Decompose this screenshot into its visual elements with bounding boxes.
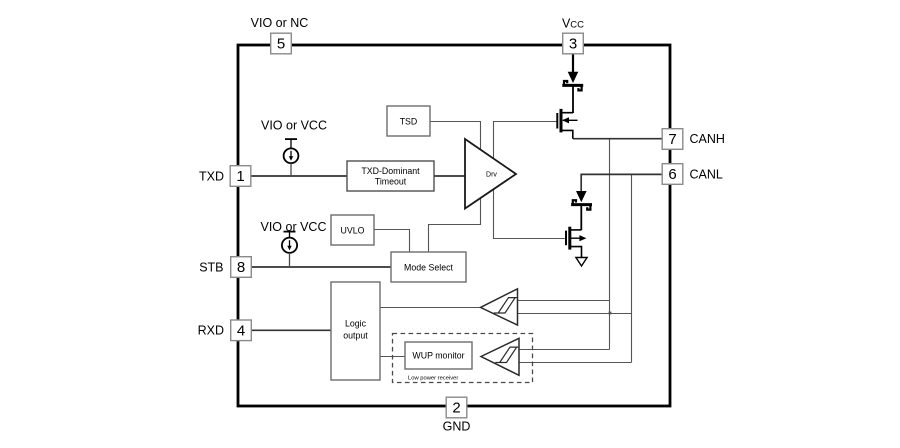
svg-text:VIO or VCC: VIO or VCC — [261, 220, 327, 234]
svg-text:VCC: VCC — [562, 17, 584, 31]
svg-text:Mode Select: Mode Select — [404, 262, 453, 272]
svg-text:Low power receiver: Low power receiver — [408, 375, 458, 381]
svg-text:1: 1 — [236, 168, 244, 185]
svg-text:Logic: Logic — [345, 319, 367, 329]
svg-text:WUP monitor: WUP monitor — [412, 351, 464, 361]
svg-text:TXD-Dominant: TXD-Dominant — [361, 166, 420, 176]
svg-text:5: 5 — [277, 36, 285, 53]
svg-text:output: output — [343, 331, 368, 341]
svg-text:STB: STB — [199, 260, 223, 274]
svg-text:VIO or NC: VIO or NC — [251, 16, 309, 30]
svg-text:3: 3 — [569, 36, 577, 53]
svg-text:RXD: RXD — [198, 324, 224, 338]
svg-text:4: 4 — [237, 323, 245, 340]
svg-text:6: 6 — [668, 166, 676, 183]
svg-text:Timeout: Timeout — [375, 177, 407, 187]
svg-text:TSD: TSD — [400, 116, 418, 126]
svg-text:8: 8 — [237, 259, 245, 276]
svg-text:UVLO: UVLO — [341, 225, 365, 235]
svg-text:2: 2 — [452, 400, 460, 417]
svg-text:GND: GND — [443, 420, 471, 434]
svg-text:CANL: CANL — [690, 168, 723, 182]
svg-text:VIO or VCC: VIO or VCC — [261, 119, 327, 133]
svg-text:CANH: CANH — [690, 132, 725, 146]
svg-text:TXD: TXD — [199, 169, 224, 183]
svg-text:7: 7 — [668, 131, 676, 148]
svg-text:Drv: Drv — [486, 172, 497, 179]
